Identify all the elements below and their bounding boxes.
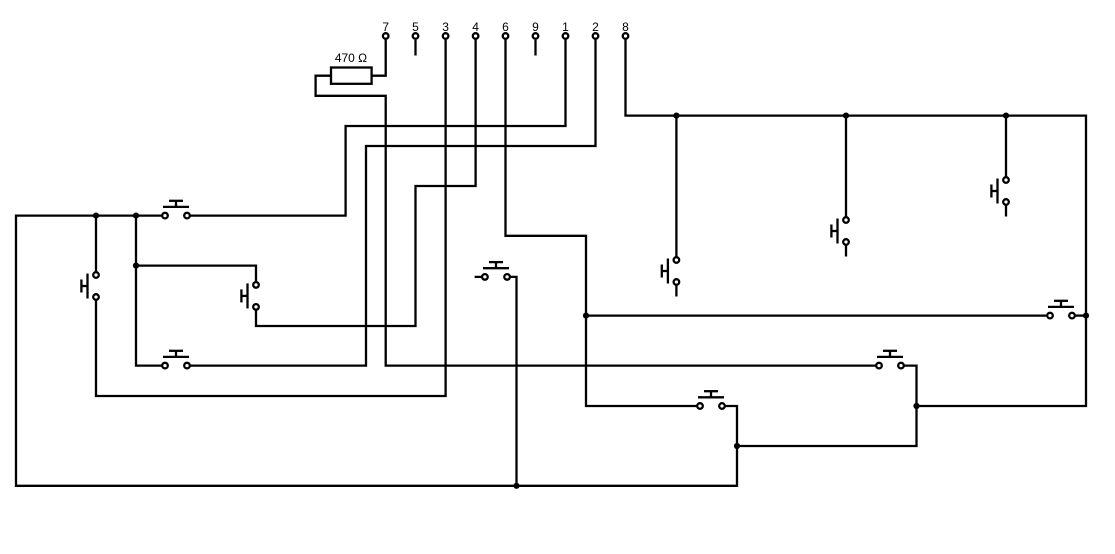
junction dot (586,315.6) xyxy=(583,313,589,319)
pushbutton switch S1 (vertical) xyxy=(662,257,679,285)
wire node (586,315.6) to switch G left lead xyxy=(586,314,1048,316)
junction dot (1086,315.6) xyxy=(1083,313,1089,319)
svg-text:1: 1 xyxy=(562,20,569,34)
wire left bus y=215.6 to left edge, down, bottom rail, up to switch E right lead xyxy=(16,216,737,486)
wire drop to switch S3 xyxy=(1005,116,1007,178)
junction dot (516.5,485.8) xyxy=(513,483,519,489)
pushbutton switch H xyxy=(482,262,510,280)
pin 9 stub wire xyxy=(534,40,536,56)
wire switch C bottom to pin 4 xyxy=(256,40,476,327)
pin 5 terminal xyxy=(413,33,419,39)
pin 5 stub wire xyxy=(414,40,416,56)
wire pin 8 top bus, right edge down, left to junction x=916 xyxy=(626,40,1087,407)
svg-text:6: 6 xyxy=(502,20,509,34)
wire resistor left loop down then long vertical and across to switch F left lead xyxy=(316,76,877,366)
wire switch G right lead to right bus xyxy=(1075,314,1087,316)
junction dot (136,265.6) xyxy=(133,263,139,269)
svg-text:470 Ω: 470 Ω xyxy=(335,51,367,65)
pushbutton switch C (vertical) xyxy=(241,282,258,310)
pushbutton switch G xyxy=(1047,301,1075,319)
pushbutton switch F xyxy=(876,351,904,369)
junction dot (1006,115.6) xyxy=(1003,113,1009,119)
wire pin 2 route to switch B right lead xyxy=(190,40,596,366)
junction dot (96,215.6) xyxy=(93,213,99,219)
resistor R1 470 ohm body xyxy=(331,68,372,84)
wire pin7 to resistor xyxy=(372,40,386,76)
pin 3 terminal xyxy=(443,33,449,39)
wire drop to switch S2 xyxy=(845,116,847,218)
pin 2 terminal xyxy=(593,33,599,39)
junction dot (136,215.6) xyxy=(133,213,139,219)
junction dot (916.5,406) xyxy=(913,403,919,409)
junction dot (737,446) xyxy=(734,443,740,449)
pin 6 terminal xyxy=(503,33,509,39)
junction dot (676.4,115.6) xyxy=(673,113,679,119)
svg-text:8: 8 xyxy=(622,20,629,34)
wire junction x=96 down to switch D top xyxy=(95,216,97,273)
pushbutton switch S2 (vertical) xyxy=(831,217,848,245)
wire switch F right lead down to rail y=446 xyxy=(737,366,917,446)
wire switch D bottom to pin 3 xyxy=(96,40,446,397)
pushbutton switch S3 (vertical) xyxy=(991,177,1008,205)
svg-text:4: 4 xyxy=(472,20,479,34)
pushbutton switch B xyxy=(162,351,190,369)
wire switch H right lead down to bottom rail xyxy=(510,277,517,486)
svg-text:3: 3 xyxy=(442,20,449,34)
svg-text:2: 2 xyxy=(592,20,599,34)
wire stub below switch S3 xyxy=(1005,205,1007,217)
pin 4 terminal xyxy=(473,33,479,39)
svg-text:9: 9 xyxy=(532,20,539,34)
svg-text:7: 7 xyxy=(382,20,389,34)
wire pin 6 route to switch E left lead xyxy=(506,40,698,407)
wire switch H left stub xyxy=(475,276,482,278)
wire stub below switch S1 xyxy=(675,285,677,297)
pin 7 terminal xyxy=(383,33,389,39)
wire switch A right lead to pin 1 xyxy=(190,40,566,216)
wire drop to switch S1 xyxy=(675,116,677,258)
pushbutton switch D (vertical) xyxy=(81,272,98,300)
wire junction x=136 down to switch B left lead xyxy=(136,216,163,366)
pin 1 terminal xyxy=(563,33,569,39)
pin 8 terminal xyxy=(623,33,629,39)
pin 9 terminal xyxy=(533,33,539,39)
wire stub below switch S2 xyxy=(845,245,847,257)
pushbutton switch A xyxy=(162,201,190,219)
pushbutton switch E xyxy=(697,391,725,409)
junction dot (846,115.6) xyxy=(843,113,849,119)
svg-text:5: 5 xyxy=(412,20,419,34)
wire junction (136,265.6) to switch C top xyxy=(136,266,256,283)
